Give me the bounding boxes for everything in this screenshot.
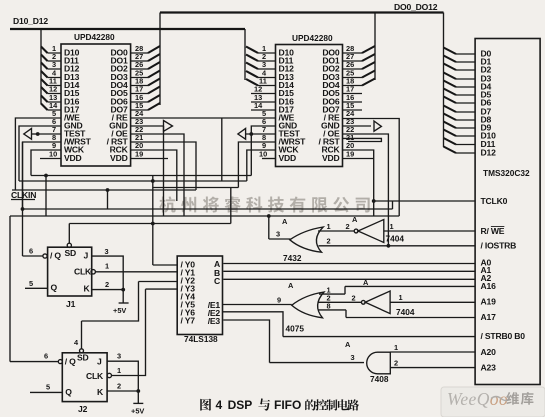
- svg-text:SD: SD: [65, 248, 77, 258]
- svg-text:DSP: DSP: [228, 398, 253, 412]
- svg-text:UPD42280: UPD42280: [74, 32, 115, 42]
- wire B to U3 A1: [223, 270, 475, 272]
- bus D10_D12: [10, 16, 245, 29]
- svg-text:CLKIN: CLKIN: [11, 190, 36, 200]
- wire U1 GND pin23 with right arrow: [131, 121, 173, 217]
- U2 right bus taps (slashes): [362, 46, 375, 86]
- svg-text:D10_D12: D10_D12: [13, 16, 48, 26]
- wire J2 Q pin5 stub: [30, 383, 62, 393]
- wire 4075 input pin2 from inverter: [319, 294, 362, 303]
- svg-text:3: 3: [351, 353, 355, 362]
- U1 bus drop vertical from D10_D12 bus: [40, 29, 42, 104]
- svg-text:A: A: [352, 215, 358, 224]
- wire U1 /RST pin21 down to CLKIN end: [131, 142, 196, 190]
- svg-text:3: 3: [276, 230, 280, 239]
- wire U2 VDD pin19 stub: [343, 158, 375, 160]
- node A label mid: [352, 215, 358, 224]
- svg-text:/E3: /E3: [208, 316, 221, 326]
- U2 left bus taps (slashes): [246, 47, 258, 86]
- U1 left bus taps (slashes): [41, 47, 48, 111]
- svg-text:3: 3: [117, 352, 121, 361]
- wire J1 CLK pin1 to /Y1: [95, 262, 177, 272]
- svg-text:7432: 7432: [283, 253, 302, 263]
- wire U1 GND pin6 down-left: [19, 126, 61, 181]
- wire U2 WCK pin9 stub: [247, 150, 276, 181]
- or-gate U7 4075 (left-pointing): [286, 292, 325, 334]
- svg-text:TMS320C32: TMS320C32: [483, 168, 530, 178]
- wire U2 /RST pin21 loop stub: [343, 138, 382, 141]
- wire J2 CLK pin1 to /Y2: [112, 289, 146, 375]
- wire U1 VDD pin19 stub: [131, 158, 168, 160]
- svg-text:7404: 7404: [386, 234, 405, 244]
- svg-text:UPD42280: UPD42280: [292, 33, 333, 43]
- svg-text:2: 2: [394, 359, 398, 368]
- wire J1 K pin2 to +5V: [92, 280, 125, 303]
- U1 right bus taps (slashes) to DO bus: [148, 46, 160, 110]
- DO bus drop vertical for U2: [374, 13, 376, 81]
- svg-text:C: C: [214, 276, 220, 286]
- svg-text:1: 1: [390, 222, 394, 231]
- wire U2 RCK pin20 down to TCLK0: [343, 150, 376, 216]
- svg-text:5: 5: [29, 279, 33, 288]
- inverter U8 7404 (left-pointing): [352, 291, 415, 317]
- U2 right data pin stubs DO0-DO7: [343, 44, 363, 110]
- svg-text:VDD: VDD: [279, 153, 297, 163]
- FIFO U2 UPD42280 body: [276, 33, 343, 167]
- net y187.5 horizontal: [153, 187, 239, 189]
- node A labels: [288, 281, 294, 290]
- wire J2 /Q pin6: [10, 216, 58, 362]
- svg-text:5: 5: [46, 383, 50, 392]
- wire 7408 input pin1 to U3 A20: [390, 343, 475, 352]
- net A horizontal y216: [10, 176, 399, 218]
- inverter U6 7404 (left-pointing): [346, 220, 405, 244]
- U1 right data pin stubs DO0-DO7 pins 28,27,26,25,18,17,16,15: [131, 44, 148, 110]
- wire U1 /WE pin5 to CLKIN: [15, 118, 61, 190]
- net B horizontal y223.5: [69, 188, 231, 225]
- svg-text:J: J: [97, 357, 102, 367]
- decoder U4 74LS138 body: [177, 256, 222, 344]
- vertical x153.8 to decoder /Y0: [152, 176, 154, 266]
- wire U1 /WRST pin8 down to long net: [21, 142, 61, 211]
- wire 7404 input pin1 to U3 A19: [390, 301, 475, 303]
- svg-text:K: K: [84, 284, 91, 294]
- wire J2 SD link to /Y3: [82, 282, 178, 322]
- wire U1 WCK pin9 down: [31, 150, 61, 176]
- net CLKIN: [11, 190, 196, 200]
- wire U2 /RE pin24 right to vertical: [343, 119, 400, 217]
- svg-text:Q: Q: [65, 387, 72, 397]
- svg-text:J2: J2: [78, 404, 88, 414]
- svg-text:DO0_DO12: DO0_DO12: [394, 2, 438, 12]
- DO bus drop vertical for U3: [443, 13, 445, 148]
- svg-text:1: 1: [399, 293, 403, 302]
- wire J2 K pin2 to +5V: [107, 382, 140, 404]
- or-gate U5 7432 (left-pointing): [276, 227, 323, 263]
- svg-text:10: 10: [259, 150, 267, 159]
- wire A to U3 A0: [223, 263, 475, 265]
- power +5V at J2: [131, 403, 144, 415]
- svg-text:A: A: [345, 340, 351, 349]
- wire /E1 to OR 4075 output pin9: [223, 296, 292, 305]
- svg-text:2: 2: [117, 382, 121, 391]
- wire U2 /WRST pin8 down: [238, 142, 275, 188]
- DSP U3 TMS320C32 body: [475, 39, 540, 385]
- wire 4075 input pin1 to U3 A16: [319, 286, 475, 295]
- wire U2 GND pin6 down: [251, 126, 275, 176]
- caption: [200, 398, 359, 412]
- svg-text:1: 1: [105, 262, 109, 271]
- svg-text:2: 2: [105, 280, 109, 289]
- wire J1 /Q pin6: [23, 142, 43, 256]
- wire /E2 to /STRB0: [223, 312, 284, 337]
- wire /Y0 stub: [153, 264, 177, 266]
- svg-text:1: 1: [327, 222, 331, 231]
- wire U1 /RE pin24 to U2 /WE pin5: [131, 118, 276, 181]
- DO bus drop vertical for U1: [159, 13, 161, 106]
- wire J1 SD pin up to net B: [68, 224, 70, 244]
- U1 left data pin stubs D10-D17 pins 1,2,3,4,11,12,13,14: [48, 44, 62, 110]
- wire U2 GND pin23 stub: [343, 125, 372, 127]
- svg-text:2: 2: [352, 294, 356, 303]
- net GND horizontal y181: [19, 179, 247, 183]
- svg-text:3: 3: [105, 247, 109, 256]
- wire 7404 input pin1 to U3 R/WE: [384, 230, 475, 232]
- svg-text:9: 9: [277, 296, 281, 305]
- svg-text:D12: D12: [481, 148, 497, 158]
- svg-text:J1: J1: [66, 299, 76, 309]
- svg-text:FIFO: FIFO: [274, 398, 301, 412]
- svg-text:6: 6: [29, 247, 33, 256]
- svg-text:VDD: VDD: [110, 153, 128, 163]
- svg-text:A19: A19: [481, 297, 497, 307]
- wire 7432 input pin2 /IOSTRB net: [319, 237, 476, 246]
- wire 4075 input pin8 to U3 A17: [319, 302, 476, 318]
- svg-text:+5V: +5V: [113, 306, 126, 315]
- svg-text:J: J: [84, 251, 89, 261]
- svg-text:1: 1: [394, 343, 398, 352]
- svg-text:/ STRB0 B0: / STRB0 B0: [481, 331, 526, 341]
- wire 7432 input pin1 from inverter: [318, 222, 354, 231]
- svg-text:/ Q: / Q: [50, 251, 61, 261]
- svg-text:A: A: [282, 217, 288, 226]
- flip-flop J1 body: [43, 243, 96, 309]
- U2 left data pin stubs pins 1,2,3,4,11 with bus taps: [251, 44, 276, 110]
- svg-text:6: 6: [44, 352, 48, 361]
- svg-text:+5V: +5V: [131, 407, 144, 416]
- FIFO U1 UPD42280 body: [61, 32, 131, 166]
- svg-text:CLK: CLK: [74, 267, 92, 277]
- svg-text:A20: A20: [481, 347, 497, 357]
- svg-text:VDD: VDD: [322, 153, 340, 163]
- wire /E3 to AND 7408 output: [223, 320, 364, 363]
- svg-text:19: 19: [346, 150, 354, 159]
- wire U1 RCK pin20 down to TCLK0: [131, 150, 177, 201]
- wire U2 /OE pin22 down to /IOSTRB net: [343, 134, 391, 248]
- wire U1 TEST pin7 with arrow: [24, 128, 61, 139]
- svg-text:/ Y7: / Y7: [181, 316, 196, 326]
- wire U1 VDD pin10 stub: [40, 158, 61, 160]
- U2 control pin numbers: [259, 109, 355, 159]
- net WCK horizontal y175: [31, 174, 251, 178]
- svg-text:R/ WE: R/ WE: [481, 226, 505, 236]
- svg-text:4075: 4075: [286, 324, 305, 334]
- svg-text:TCLK0: TCLK0: [481, 196, 508, 206]
- wire 7408 input pin2 to U3 A23: [390, 359, 475, 368]
- U3 bus taps (slashes) from DO bus: [444, 48, 457, 154]
- svg-text:A: A: [363, 278, 369, 287]
- power +5V at J1: [113, 303, 129, 315]
- wire /Y3 stub: [146, 288, 178, 290]
- wire U2 TEST pin7 with arrow: [238, 128, 276, 139]
- svg-text:7404: 7404: [396, 307, 415, 317]
- svg-text:8: 8: [327, 302, 331, 311]
- U1 control pin numbers 5,6,7,8,9,10 and 24,23,22,21,20,19: [49, 109, 144, 159]
- wire 7432 output pin3 riser to net A: [269, 216, 291, 239]
- svg-text:2: 2: [327, 237, 331, 246]
- svg-text:/ IOSTRB: / IOSTRB: [481, 241, 517, 251]
- svg-text:A17: A17: [481, 312, 497, 322]
- wire J1 J pin3: [92, 247, 124, 290]
- wire U2 VDD pin10 stub: [262, 158, 276, 160]
- svg-text:7408: 7408: [370, 374, 389, 384]
- wire J2 J pin3: [107, 352, 138, 392]
- arrow on U2 /RE-GND rows: [374, 121, 381, 131]
- svg-text:Q: Q: [51, 283, 58, 293]
- wire J2 SD pin4 riser: [74, 321, 82, 349]
- svg-text:4: 4: [216, 398, 223, 412]
- svg-text:19: 19: [135, 150, 143, 159]
- wire J1 Q pin5 stub: [25, 279, 48, 289]
- svg-text:SD: SD: [77, 353, 89, 363]
- net TCLK0 horizontal: [374, 201, 475, 209]
- svg-text:1: 1: [117, 366, 121, 375]
- bus DO0_DO12: [160, 2, 444, 13]
- node A label left: [282, 217, 288, 226]
- wire C to U3 A2: [223, 278, 475, 280]
- svg-text:10: 10: [49, 150, 57, 159]
- svg-text:CLK: CLK: [86, 371, 104, 381]
- svg-text:VDD: VDD: [64, 153, 82, 163]
- junction CLKIN vertical riser: [106, 188, 110, 209]
- svg-text:2: 2: [346, 222, 350, 231]
- flip-flop J2 body: [58, 349, 111, 414]
- and-gate U9 7408 (left-pointing): [367, 352, 391, 384]
- svg-text:A23: A23: [481, 363, 497, 373]
- net /WRST long horizontal y209: [23, 208, 393, 210]
- U3 data pin stubs D0-D12: [456, 54, 475, 153]
- svg-text:A16: A16: [481, 281, 497, 291]
- svg-text:74LS138: 74LS138: [184, 334, 218, 344]
- net /STRB0 horizontal: [283, 336, 475, 338]
- svg-text:WeeQoo: WeeQoo: [447, 389, 508, 409]
- wire U1 /OE pin22 down to net A line: [131, 134, 184, 216]
- svg-text:K: K: [97, 387, 104, 397]
- svg-text:A: A: [288, 281, 294, 290]
- svg-text:/ Q: / Q: [65, 357, 76, 367]
- D10_D12 bus drop vertical for U2: [244, 29, 246, 80]
